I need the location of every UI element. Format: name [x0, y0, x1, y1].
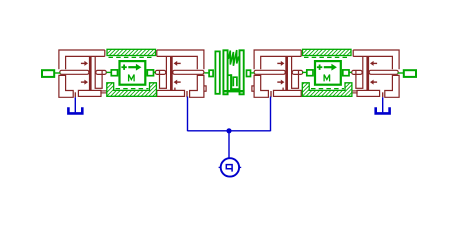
- wire to source: [228, 131, 230, 158]
- source circle: [221, 158, 239, 176]
- right device (mirror about x=229): [252, 50, 416, 113]
- mass box contents : right device: [317, 64, 337, 82]
- source glyph (rotated P): [226, 165, 232, 172]
- anchors and mass subsystem : left device: [107, 49, 157, 96]
- spring: [228, 50, 238, 66]
- comb pin left square: [209, 70, 213, 76]
- comb pin right square: [247, 70, 251, 76]
- wire right vertical: [270, 97, 272, 132]
- mass box contents (not mirrored) : left device: [121, 64, 141, 82]
- bottom link bar: [230, 88, 240, 90]
- comb pin right stub: [251, 72, 254, 74]
- left electrode bar1: [215, 51, 219, 93]
- wire left vertical: [187, 97, 189, 132]
- anchors and mass subsystem : right device: [302, 49, 352, 96]
- comb pin left stub: [204, 72, 208, 74]
- left device: [42, 50, 206, 113]
- frame bar2: [223, 50, 227, 94]
- wire horizontal: [188, 130, 271, 132]
- damper cylinder: [233, 77, 237, 86]
- frame bar3: [240, 50, 244, 94]
- source ticks: [219, 166, 221, 168]
- damper piston: [230, 74, 232, 90]
- junction node: [226, 128, 231, 133]
